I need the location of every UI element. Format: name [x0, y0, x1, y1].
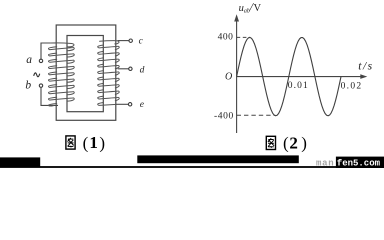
wire from terminal b to primary coil bottom	[41, 87, 58, 105]
svg-text:400: 400	[218, 33, 234, 43]
y-axis arrowhead	[234, 14, 239, 21]
svg-text:d: d	[140, 65, 145, 75]
wire from terminal a to primary coil top	[41, 43, 56, 59]
tap d wire	[118, 68, 129, 70]
svg-text:man: man	[316, 158, 334, 168]
svg-text:2: 2	[289, 133, 298, 152]
figure 2 caption: tu character glyph	[266, 136, 275, 149]
svg-text:b: b	[25, 80, 31, 92]
dashed line at -400 to first trough	[237, 114, 276, 116]
sine curve of u_ab	[237, 37, 341, 115]
svg-text:a: a	[26, 54, 32, 66]
transformer core outer rectangle	[56, 25, 116, 120]
dashed line at +400 to first peak	[237, 36, 250, 38]
svg-text:fen5.com: fen5.com	[337, 158, 381, 168]
terminal c circle	[129, 39, 132, 42]
figure 1 caption: tu character glyph	[66, 136, 75, 149]
graph y-axis	[236, 17, 238, 134]
svg-text:(: (	[283, 134, 289, 153]
transformer core inner rectangle	[67, 36, 103, 112]
x-axis	[237, 76, 361, 78]
svg-text:(: (	[83, 133, 89, 152]
tap e wire	[116, 103, 128, 105]
x-axis arrowhead	[360, 74, 367, 79]
tap c wire	[118, 40, 129, 42]
svg-text:O: O	[225, 71, 232, 82]
terminal b circle	[39, 84, 42, 87]
primary coil (10 turns)	[48, 43, 74, 106]
svg-text:1: 1	[89, 133, 98, 152]
svg-text:): )	[301, 134, 307, 153]
secondary coil (10 turns)	[98, 41, 120, 106]
svg-text:c: c	[139, 36, 144, 46]
AC source tilde symbol	[34, 73, 40, 77]
watermark black box	[336, 157, 384, 168]
svg-text:uab/V: uab/V	[239, 2, 262, 15]
bottom scan bar middle	[137, 155, 298, 163]
svg-text:-400: -400	[214, 112, 234, 122]
svg-text:e: e	[140, 100, 144, 110]
svg-text:0.01: 0.01	[288, 81, 309, 91]
bottom edge line	[0, 166, 384, 168]
terminal d circle	[129, 67, 132, 70]
svg-text:): )	[99, 133, 105, 152]
svg-text:t/s: t/s	[358, 61, 372, 73]
terminal a circle	[39, 59, 42, 62]
bottom scan bar left	[0, 157, 40, 166]
terminal e circle	[128, 103, 131, 106]
svg-text:0.02: 0.02	[341, 82, 363, 92]
